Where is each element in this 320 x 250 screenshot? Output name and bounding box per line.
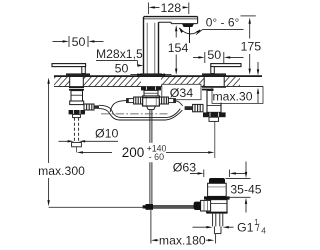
outlet axis extension: [189, 26, 191, 43]
basin reference line: [49, 206, 144, 208]
svg-text:4: 4: [261, 226, 266, 236]
spout horizontal arm: [144, 17, 198, 24]
drain bottom flange: [206, 212, 227, 214]
spout aerator: [182, 24, 194, 27]
right valve bottom nut: [203, 112, 226, 117]
left valve escutcheon: [66, 73, 90, 76]
dimension 200 +140 -60: [77, 151, 215, 153]
svg-text:max.180: max.180: [159, 233, 206, 247]
svg-text:Ø10: Ø10: [95, 127, 119, 141]
countertop hole center: [141, 76, 161, 87]
left valve lever handle: [52, 64, 86, 67]
drain tailpipe lower: [214, 226, 221, 233]
svg-text:0° - 6°: 0° - 6°: [206, 16, 240, 30]
spout base escutcheon: [140, 73, 162, 76]
angle label 0-6 deg: [196, 30, 244, 35]
dimension 154: [175, 25, 177, 75]
left valve body below counter: [71, 91, 83, 104]
left valve inlet pipe dashed: [74, 118, 78, 143]
left valve pipe end fitting: [72, 142, 82, 146]
dimension 50 left: [53, 36, 104, 47]
tee right hex: [159, 97, 168, 104]
countertop top surface line: [54, 75, 262, 77]
svg-text:/: /: [257, 223, 260, 234]
dimension 128: [148, 3, 188, 15]
left valve shank through counter: [70, 76, 84, 86]
right valve body below counter: [207, 90, 221, 112]
tee left hex: [134, 97, 143, 104]
svg-text:M28x1,5: M28x1,5: [96, 47, 143, 61]
drain tailpipe threaded: [213, 214, 223, 227]
hose centerline dash-dot: [101, 113, 168, 115]
dimension 175: [241, 16, 256, 75]
spout shank nut: [141, 87, 161, 91]
tee bottom taper: [147, 106, 156, 110]
left valve side hex fitting: [84, 104, 94, 110]
tee left stub: [126, 98, 133, 103]
svg-text:50: 50: [115, 62, 129, 76]
right valve shank through counter: [204, 76, 224, 86]
svg-text:200: 200: [122, 145, 145, 160]
svg-text:- 60: - 60: [149, 152, 164, 162]
right valve hose stub: [185, 106, 193, 110]
left valve bottom nut: [69, 110, 85, 114]
countertop hole left: [70, 76, 84, 87]
pop-up rod to drain: [153, 206, 195, 209]
drain side knob: [194, 202, 201, 210]
countertop hatching: [46, 76, 248, 87]
pipe elbow fitting at faucet: [143, 204, 153, 210]
svg-text:max.30: max.30: [213, 90, 253, 104]
right valve lever handle: [211, 64, 241, 67]
hose link to tee left stub: [110, 101, 126, 112]
svg-text:G1: G1: [237, 221, 254, 235]
dimension max.30: [257, 62, 259, 103]
right valve stem: [211, 67, 215, 74]
tee right stub: [168, 98, 175, 103]
left valve pipe axis tick: [76, 147, 78, 153]
right valve side hex fitting: [193, 104, 203, 111]
dimension diameter 10: [59, 140, 119, 142]
dimension 35-45: [226, 162, 251, 213]
svg-text:50: 50: [72, 35, 86, 49]
tee fitting body: [143, 96, 160, 106]
right valve axis extension line: [214, 121, 216, 158]
svg-text:128: 128: [160, 1, 181, 15]
dimension G1 1/4: [193, 226, 234, 228]
countertop hole right: [204, 76, 225, 87]
label box diameter 34: [162, 84, 201, 99]
svg-text:154: 154: [168, 41, 189, 55]
drain side hex: [201, 200, 211, 211]
label box max.30: [212, 87, 263, 104]
left valve mounting nut: [69, 87, 84, 91]
dimension diameter 63: [190, 170, 247, 178]
right valve escutcheon: [202, 73, 226, 76]
right valve mounting nut: [202, 86, 226, 90]
countertop bottom line: [54, 86, 263, 88]
svg-text:max.300: max.300: [38, 164, 85, 178]
drain pop-up knob: [208, 178, 227, 183]
left valve hose stub: [94, 105, 99, 108]
svg-text:Ø63: Ø63: [173, 161, 197, 175]
spout column: [144, 17, 159, 74]
hose band upper line: [99, 105, 180, 117]
mixer outlet pipe down: [150, 110, 152, 205]
drain body: [207, 200, 227, 213]
left valve stem: [82, 67, 86, 74]
dimension max.300: [47, 78, 49, 207]
left valve tailpiece: [73, 114, 81, 117]
swivel arc: [179, 28, 201, 34]
right valve tailpiece: [209, 117, 219, 121]
hose link tee right to right valve: [175, 101, 182, 106]
svg-text:Ø34: Ø34: [170, 86, 194, 100]
drain neck: [208, 183, 227, 196]
hose band lower line: [99, 109, 182, 120]
spout shank neck: [144, 90, 158, 96]
svg-text:175: 175: [240, 40, 261, 54]
label M28x1,5: [96, 61, 143, 67]
svg-text:35-45: 35-45: [230, 182, 261, 196]
dimension 50 right: [193, 52, 244, 63]
svg-text:50: 50: [207, 48, 221, 62]
drain flange: [204, 196, 230, 199]
left valve lower ring: [70, 101, 84, 105]
dimension max.180: [151, 210, 216, 244]
dimension 50 center: [131, 73, 172, 75]
